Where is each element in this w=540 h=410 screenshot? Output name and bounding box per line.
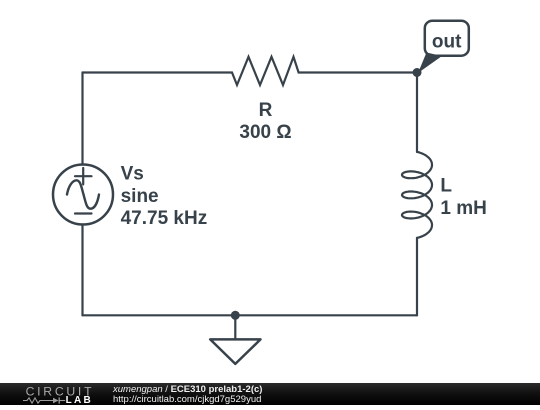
- svg-text:47.75 kHz: 47.75 kHz: [121, 208, 208, 229]
- svg-text:R: R: [259, 100, 273, 121]
- svg-text:out: out: [432, 31, 462, 52]
- svg-text:1 mH: 1 mH: [440, 198, 486, 219]
- svg-text:300 Ω: 300 Ω: [239, 122, 291, 143]
- svg-text:L: L: [440, 176, 452, 197]
- svg-text:sine: sine: [121, 186, 159, 207]
- svg-text:Vs: Vs: [121, 163, 144, 184]
- svg-text:LAB: LAB: [66, 394, 93, 404]
